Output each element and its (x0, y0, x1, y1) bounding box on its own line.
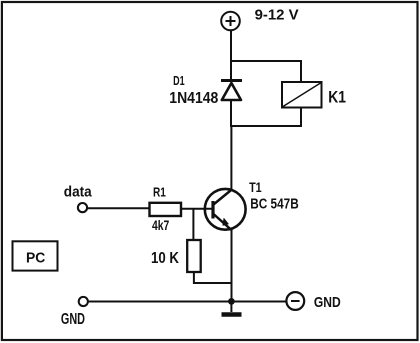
box PC (13, 241, 58, 270)
svg-text:data: data (64, 184, 92, 201)
resistor R1 (150, 203, 182, 216)
svg-text:T1: T1 (249, 180, 262, 195)
svg-text:1N4148: 1N4148 (169, 90, 218, 107)
svg-text:10 K: 10 K (151, 250, 180, 267)
wire: data terminal to R1 (88, 207, 150, 209)
svg-text:9-12 V: 9-12 V (255, 7, 299, 23)
svg-text:GND: GND (314, 295, 341, 311)
wire: emitter lead down to ground node (231, 230, 233, 302)
resistor 10K (187, 240, 201, 272)
svg-text:4k7: 4k7 (152, 217, 169, 233)
wire: ground rail (88, 301, 286, 303)
svg-text:D1: D1 (173, 73, 185, 88)
transistor T1 BC547B (205, 189, 246, 231)
wire: bottom horizontal (relay branch to collector node) (230, 125, 302, 127)
junction ground node (228, 298, 235, 305)
wire: R1 to base (181, 208, 212, 210)
relay K1 (282, 82, 322, 108)
terminal GND (left) (79, 297, 88, 306)
svg-text:K1: K1 (328, 89, 346, 107)
wire: 10K bottom lead to emitter line (194, 272, 232, 283)
wire: top horizontal (node to relay branch) (230, 60, 302, 62)
wire: relay branch right vertical (300, 60, 302, 127)
wire: diode branch top lead (230, 61, 232, 81)
terminal +V (9-12V supply) (221, 12, 240, 31)
wire: +V terminal to top node (230, 31, 232, 62)
svg-text:GND: GND (61, 311, 85, 328)
svg-text:R1: R1 (153, 185, 166, 200)
ground symbol (222, 301, 242, 314)
svg-text:BC 547B: BC 547B (250, 197, 298, 213)
diode D1 1N4148 (221, 81, 242, 101)
wire: collector lead (230, 126, 232, 190)
wire: diode branch bottom lead (230, 100, 232, 126)
terminal GND (right, minus) (286, 292, 304, 310)
terminal data input (78, 203, 87, 212)
svg-text:PC: PC (26, 249, 45, 266)
wire: tee down to 10K resistor (192, 209, 194, 240)
